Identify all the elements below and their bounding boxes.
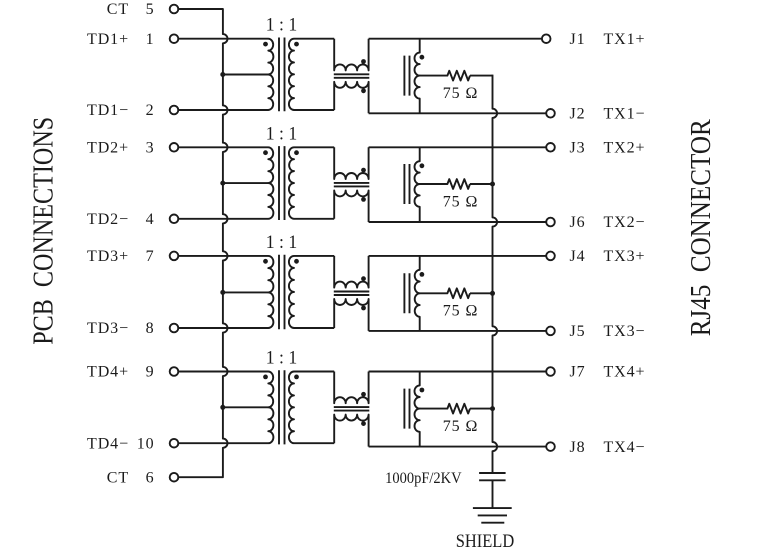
wire J4 TX3+ rail [369,255,547,257]
wire J5 TX3- rail [369,330,547,332]
transformer T3 core [279,255,285,330]
terminal J3 [546,143,555,152]
wire R1 to shield bus [470,75,493,77]
transformer T1 secondary winding [289,39,334,110]
transformer T2 primary winding with wires TD2+ / TD2- [178,147,273,219]
common-mode choke L4 core [334,407,370,411]
svg-text:5: 5 [146,1,155,18]
svg-text:TX1−: TX1− [604,106,646,123]
polarity dot T2 secondary [294,150,299,155]
svg-text:PCB CONNECTIONS: PCB CONNECTIONS [29,117,60,345]
transformer T2 center-tap wire [223,182,268,184]
transformer T3 center-tap wire [223,291,268,293]
svg-text:TD1−: TD1− [87,102,129,119]
terminal J7 [546,367,555,376]
svg-text:2: 2 [146,102,155,119]
autotransformer A4 core [404,389,409,429]
terminal J8 [546,442,555,451]
svg-text:7: 7 [146,248,155,265]
wire J6 TX2- rail [369,221,547,223]
autotransformer A3 core [404,273,409,313]
capacitor C1 1000pF/2KV [479,473,506,508]
terminal CT 5 [170,5,179,14]
svg-text:1 : 1: 1 : 1 [266,349,298,369]
terminal J4 [546,252,555,261]
common-mode choke L3 bottom winding [334,299,368,331]
svg-text:J1: J1 [570,31,586,48]
transformer T4 primary winding with wires TD4+ / TD4- [178,372,273,444]
svg-text:75 Ω: 75 Ω [443,418,479,435]
svg-text:TX3−: TX3− [604,323,646,340]
svg-text:10: 10 [137,435,155,452]
polarity dot T2 primary [263,150,268,155]
resistor R1 75 ohm [420,71,470,81]
svg-text:TX2−: TX2− [604,214,646,231]
autotransformer A2 core [404,164,409,204]
wire R2 to shield bus [470,183,493,185]
polarity dot L4 top [361,392,366,397]
resistor R3 75 ohm [420,288,470,298]
svg-text:J5: J5 [570,323,586,340]
terminal J6 [546,218,555,227]
autotransformer A4 winding [415,372,420,447]
common-mode choke L1 top winding [334,39,368,71]
transformer T1 core [279,38,285,112]
polarity dot A1 [420,55,425,60]
svg-text:TX2+: TX2+ [604,140,646,157]
autotransformer A3 winding [415,256,420,331]
polarity dot A4 [420,388,425,393]
transformer T2 secondary winding [289,147,334,219]
svg-text:TD4+: TD4+ [87,364,129,381]
wire R4 to shield bus [470,408,493,410]
svg-text:1: 1 [146,31,155,48]
common-mode choke L2 core [334,183,370,187]
terminal TD3+ (pin) [170,252,179,261]
common-mode choke L1 core [334,74,370,78]
polarity dot T4 secondary [294,375,299,380]
transformer T3 secondary winding [289,256,334,328]
svg-text:J8: J8 [570,439,586,456]
polarity dot T3 secondary [294,259,299,264]
ground (shield earth) [473,508,512,523]
svg-text:TD2−: TD2− [87,211,129,228]
polarity dot T1 secondary [294,42,299,47]
svg-text:J2: J2 [570,106,586,123]
terminal TD4- (pin) [170,439,179,448]
wire R3 to shield bus [470,292,493,294]
polarity dot A3 [420,272,425,277]
junction R3/shield bus [490,291,495,296]
terminal TD2+ (pin) [170,143,179,152]
svg-text:6: 6 [146,469,155,486]
svg-text:TX3+: TX3+ [604,248,646,265]
polarity dot L2 bottom [361,197,366,202]
terminal J1 [542,34,551,43]
polarity dot T4 primary [263,375,268,380]
svg-text:TD2+: TD2+ [87,140,129,157]
svg-text:J4: J4 [570,248,586,265]
transformer T4 core [279,370,285,444]
svg-text:TD1+: TD1+ [87,31,129,48]
common-mode choke L3 top winding [334,256,368,288]
polarity dot L3 top [361,276,366,281]
svg-text:4: 4 [146,211,155,228]
wire J1 TX1+ rail [369,38,542,40]
svg-text:75 Ω: 75 Ω [443,303,479,320]
svg-text:TD4−: TD4− [87,435,129,452]
junction center tap T2 [220,181,225,186]
junction center tap T4 [220,405,225,410]
resistor R2 75 ohm [420,179,470,189]
common-mode choke L1 bottom winding [334,82,368,114]
terminal TD4+ (pin) [170,367,179,376]
wire J3 TX2+ rail [369,146,547,148]
common-mode choke L4 top winding [334,372,368,404]
svg-text:CT: CT [107,469,129,486]
polarity dot L1 bottom [361,88,366,93]
svg-text:8: 8 [146,320,155,337]
svg-text:TD3−: TD3− [87,320,129,337]
terminal TD2- (pin) [170,215,179,224]
svg-text:SHIELD: SHIELD [456,532,515,551]
junction R4/shield bus [490,406,495,411]
terminal TD1+ (pin) [170,34,179,43]
svg-text:1 : 1: 1 : 1 [266,233,298,253]
polarity dot L3 bottom [361,306,366,311]
svg-text:TX4+: TX4+ [604,364,646,381]
transformer T4 secondary winding [289,372,334,444]
junction center tap T3 [220,290,225,295]
svg-text:TD3+: TD3+ [87,248,129,265]
common-mode choke L3 core [334,292,370,296]
svg-text:75 Ω: 75 Ω [443,85,479,102]
wire J8 TX4- rail [369,446,547,448]
terminal TD1- (pin) [170,106,179,115]
autotransformer A1 core [404,56,409,96]
svg-text:J3: J3 [570,140,586,157]
common-mode choke L2 bottom winding [334,190,368,222]
svg-text:1 : 1: 1 : 1 [266,124,298,144]
polarity dot A2 [420,163,425,168]
polarity dot L1 top [361,59,366,64]
terminal J5 [546,327,555,336]
svg-text:3: 3 [146,140,155,157]
polarity dot L4 bottom [361,421,366,426]
terminal TD3- (pin) [170,324,179,333]
common-mode choke L4 bottom winding [334,415,368,447]
terminal J2 [546,109,555,118]
svg-text:CT: CT [107,1,129,18]
svg-text:J7: J7 [570,364,586,381]
junction center tap T1 [220,72,225,77]
transformer T1 center-tap wire [223,74,268,76]
svg-text:TX4−: TX4− [604,439,646,456]
wire CT bus (pins 5-6 center-tap bus, with wire hops) [178,9,227,477]
polarity dot L2 top [361,168,366,173]
svg-text:75 Ω: 75 Ω [443,193,479,210]
resistor R4 75 ohm [420,404,470,414]
svg-text:9: 9 [146,364,155,381]
terminal CT 6 [170,473,179,482]
common-mode choke L2 top winding [334,147,368,179]
transformer T2 core [279,146,285,220]
svg-text:1 : 1: 1 : 1 [266,16,298,36]
polarity dot T1 primary [263,42,268,47]
autotransformer A2 winding [415,147,420,222]
svg-text:J6: J6 [570,214,586,231]
wire J7 TX4+ rail [369,371,547,373]
transformer T4 center-tap wire [223,406,268,408]
svg-text:1000pF/2KV: 1000pF/2KV [385,470,462,487]
transformer T3 primary winding with wires TD3+ / TD3- [178,256,273,328]
junction R2/shield bus [490,182,495,187]
autotransformer A1 winding [415,39,420,114]
svg-text:TX1+: TX1+ [604,31,646,48]
wire shield bus (with wire hops) [493,75,498,473]
wire J2 TX1- rail [369,112,547,114]
svg-text:RJ45 CONNECTOR: RJ45 CONNECTOR [686,119,717,336]
polarity dot T3 primary [263,259,268,264]
transformer T1 primary winding with wires TD1+ / TD1- [178,39,273,110]
